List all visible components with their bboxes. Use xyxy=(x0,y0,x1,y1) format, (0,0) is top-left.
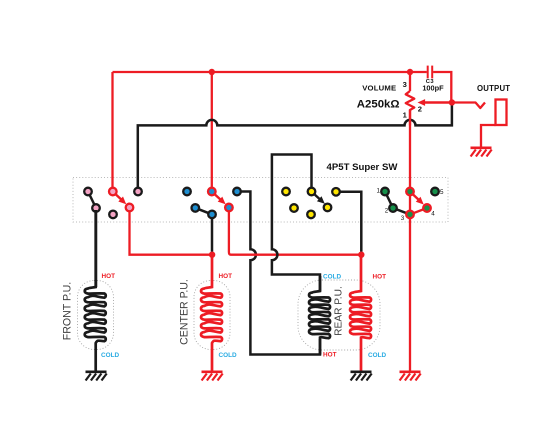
ground (front pickup) xyxy=(86,370,107,373)
svg-text:HOT: HOT xyxy=(373,273,387,280)
node: wiper junction xyxy=(449,99,455,105)
contact yellow 3 xyxy=(307,211,315,219)
switch arrow P2 (blue pole) xyxy=(213,192,222,200)
switch box (4P5T Super SW body) xyxy=(73,178,448,223)
contact yellow selected xyxy=(324,204,332,212)
wire: jack sleeve to ground xyxy=(481,125,496,147)
contact blue 1 xyxy=(183,188,191,196)
contact green 5 xyxy=(431,188,439,196)
ground (output, red) xyxy=(471,147,492,150)
switch arrow P1 (pink pole) xyxy=(114,192,123,200)
wire: pink selected contact to red bus A xyxy=(130,208,213,255)
switch arrow P4 (green pole) xyxy=(411,192,420,201)
wire: yellow common loop to rear pickup cold (hop over red bus) xyxy=(272,155,320,292)
inductor L3b rear coil red xyxy=(350,256,371,371)
contact pink 3 xyxy=(134,188,142,196)
svg-text:REAR P.U.: REAR P.U. xyxy=(334,286,345,336)
contact green 3 xyxy=(406,211,414,219)
wire: black bus pot pin1 area to pink contact (hops over red risers) xyxy=(138,106,452,190)
wire: wiper to output (red, arrow into pot) xyxy=(423,101,452,103)
wire: blue contact diagonal to center pickup lead xyxy=(195,208,212,252)
contact yellow 1 xyxy=(282,188,290,196)
svg-text:2: 2 xyxy=(385,208,389,215)
svg-text:COLD: COLD xyxy=(368,352,386,359)
contact yellow 2 xyxy=(290,204,298,212)
svg-text:FRONT P.U.: FRONT P.U. xyxy=(62,282,74,340)
wire: red riser to pink common xyxy=(111,72,113,189)
svg-text:VOLUME: VOLUME xyxy=(362,84,396,93)
svg-text:A250kΩ: A250kΩ xyxy=(357,99,400,111)
pickup outline FRONT P.U. xyxy=(78,281,114,350)
contact pink selected xyxy=(126,204,134,212)
inductor L2 center coil (red) xyxy=(201,256,222,371)
pickup outline CENTER P.U. xyxy=(194,281,230,350)
contact blue 3 xyxy=(208,211,216,219)
svg-text:3: 3 xyxy=(403,80,407,89)
capacitor C3 xyxy=(410,66,451,101)
svg-text:CENTER P.U.: CENTER P.U. xyxy=(179,279,191,345)
node: junction top bus / blue riser xyxy=(209,69,215,75)
svg-text:1: 1 xyxy=(376,188,380,195)
contact green common xyxy=(406,188,414,196)
svg-text:4: 4 xyxy=(431,210,435,217)
wire: pink contact to front pickup hot xyxy=(88,192,96,288)
node: red bus B junction (rear hot) xyxy=(358,252,364,258)
ground (center pickup, red) xyxy=(202,370,223,373)
svg-text:100pF: 100pF xyxy=(422,84,444,93)
svg-text:5: 5 xyxy=(440,189,444,196)
svg-text:OUTPUT: OUTPUT xyxy=(477,84,510,93)
contact blue 2 xyxy=(192,204,200,212)
contact pink 4 xyxy=(92,204,100,212)
wire: yellow contact 5 to rear junction xyxy=(336,192,361,252)
ground (rear red coil cold, black) xyxy=(351,370,372,373)
wire: red top bus (pickups to pot pin 3) xyxy=(113,71,411,73)
svg-text:HOT: HOT xyxy=(323,351,337,358)
contact pink 5 xyxy=(109,211,117,219)
svg-text:2: 2 xyxy=(418,105,422,114)
svg-text:3: 3 xyxy=(401,215,405,222)
contact pink common xyxy=(109,188,117,196)
wire: blue selected contact to red bus B xyxy=(229,208,361,255)
contact blue selected xyxy=(225,204,233,212)
contact green 4 xyxy=(423,204,431,212)
wire: red riser to blue common xyxy=(211,72,213,189)
potentiometer VOLUME A250k (zigzag) xyxy=(357,72,422,125)
svg-text:COLD: COLD xyxy=(101,352,119,359)
output jack xyxy=(496,100,507,126)
svg-text:HOT: HOT xyxy=(102,273,116,280)
wire: blue contact 5 to rear pickup hot (hop over red bus) xyxy=(237,192,320,355)
wire: green contact 3 to 4 (red) xyxy=(410,208,427,214)
svg-text:COLD: COLD xyxy=(323,273,341,280)
contact green 2 xyxy=(389,204,397,212)
inductor L1 front coil xyxy=(85,210,106,371)
svg-text:HOT: HOT xyxy=(219,273,233,280)
svg-text:4P5T Super SW: 4P5T Super SW xyxy=(327,162,399,173)
inductor L3a rear coil black xyxy=(309,276,330,355)
contact pink 1 xyxy=(84,188,92,196)
wire: red pot pin1 down through green pole to ground xyxy=(409,110,411,371)
node: red bus A junction (center hot) xyxy=(209,252,215,258)
contact blue 5 xyxy=(233,188,241,196)
node: pot pin3 junction xyxy=(407,69,413,75)
contact yellow common xyxy=(308,188,316,196)
svg-text:COLD: COLD xyxy=(219,352,237,359)
pickup outline REAR P.U. xyxy=(298,280,380,350)
contact blue common xyxy=(208,188,216,196)
contact yellow 5 xyxy=(332,188,340,196)
switch arrow P3 (yellow pole, black) xyxy=(312,192,321,200)
contact green 1 xyxy=(381,188,389,196)
ground (bottom right, red) xyxy=(400,370,421,373)
wire: green contacts 1-2-3 chain xyxy=(385,192,410,215)
